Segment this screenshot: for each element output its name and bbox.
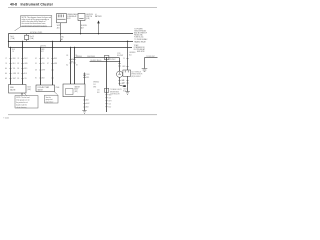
- svg-text:(C/B): (C/B): [86, 18, 90, 20]
- svg-text:NOTE: The fuel and: NOTE: The fuel and: [16, 97, 29, 99]
- svg-text:TO POWER: TO POWER: [134, 29, 143, 31]
- svg-text:RED: RED: [54, 58, 57, 60]
- ground G1: [82, 111, 86, 114]
- svg-text:No.13: No.13: [30, 36, 34, 38]
- svg-text:YEL: YEL: [61, 36, 64, 38]
- wire from fuse box B to bus: [80, 21, 82, 34]
- svg-text:WHT: WHT: [42, 70, 45, 72]
- svg-text:BLU/WHT: BLU/WHT: [117, 55, 123, 57]
- svg-text:RED: RED: [24, 68, 27, 70]
- branch wire W5: [90, 61, 120, 63]
- svg-text:(INT): (INT): [74, 91, 78, 93]
- wire V2b: [52, 41, 54, 85]
- svg-text:BOX: BOX: [67, 18, 70, 20]
- svg-text:D4: D4: [47, 58, 49, 60]
- svg-text:C16: C16: [97, 89, 100, 91]
- svg-text:D2: D2: [35, 58, 37, 60]
- svg-text:GRN: GRN: [71, 59, 74, 61]
- inline connector on wire: [83, 74, 86, 78]
- svg-text:B12: B12: [41, 51, 44, 53]
- gauge assembly box G3: [63, 84, 85, 97]
- arrow leader from note box N2: [21, 93, 23, 95]
- svg-text:Instrument Cluster: Instrument Cluster: [21, 2, 54, 6]
- battery feed arrow B+: [95, 14, 102, 34]
- svg-text:GRN: GRN: [24, 63, 27, 65]
- gauge box G1: [9, 85, 32, 94]
- ground G404: [142, 69, 148, 72]
- wire label between buses: [61, 36, 64, 40]
- svg-text:IGNITION: IGNITION: [86, 14, 93, 16]
- svg-text:BRIGHTNESS: BRIGHTNESS: [110, 91, 119, 93]
- connector ticks and labels on V2a/V2b: [39, 59, 53, 79]
- branch W5 end label: [109, 59, 115, 61]
- svg-text:BLU: BLU: [108, 106, 111, 108]
- svg-text:BLU: BLU: [24, 73, 27, 75]
- svg-text:COMPRESSOR: COMPRESSOR: [134, 47, 146, 49]
- svg-text:GRN/BLK: GRN/BLK: [76, 56, 82, 58]
- svg-text:C18: C18: [108, 97, 111, 99]
- inline connector ticks: [118, 64, 121, 67]
- wire V3a: [70, 47, 72, 84]
- label for fuse box A: [67, 13, 77, 20]
- wire into G3: [84, 73, 86, 85]
- connector box label: [131, 71, 142, 78]
- svg-text:BLK: BLK: [122, 80, 125, 82]
- svg-text:FUEL: FUEL: [10, 87, 14, 89]
- wire V1a (gauge feed 1): [10, 47, 12, 84]
- svg-text:D5: D5: [35, 63, 37, 65]
- connector ticks and labels on V1a/V1b: [9, 59, 23, 79]
- svg-text:WHT: WHT: [57, 25, 60, 27]
- page header title: [10, 2, 54, 6]
- svg-text:WHT: WHT: [24, 58, 27, 60]
- svg-text:RED: RED: [86, 77, 89, 79]
- connector box C417: [123, 70, 131, 76]
- svg-text:BLK: BLK: [123, 91, 126, 93]
- svg-text:SWITCH: SWITCH: [86, 16, 92, 18]
- svg-text:(8P) BLU/WHT: (8P) BLU/WHT: [131, 76, 140, 78]
- svg-text:PPL/WHT: PPL/WHT: [109, 59, 115, 61]
- wire V5 to connector box: [127, 41, 129, 70]
- svg-text:RED: RED: [108, 94, 111, 96]
- label for fuse box B: [86, 14, 93, 20]
- bus W2 right label: [134, 38, 148, 43]
- branch W4 label: [76, 56, 95, 58]
- bus W3 right label: [134, 44, 146, 53]
- fuse box B (ignition switch): [78, 14, 85, 21]
- note box N3: [45, 95, 59, 103]
- wire below speedometer: [119, 77, 121, 85]
- svg-text:RED: RED: [71, 62, 74, 64]
- wire V3b: [74, 47, 76, 84]
- junction dot: [80, 33, 81, 34]
- svg-text:C5: C5: [123, 58, 125, 60]
- wire V4: [106, 58, 108, 112]
- ground terminal blob: [120, 84, 124, 87]
- svg-text:BLK: BLK: [42, 78, 45, 80]
- svg-text:BLU: BLU: [12, 49, 15, 51]
- wire below connector box: [127, 76, 129, 91]
- svg-text:D8: D8: [35, 70, 37, 72]
- connector ticks on V3a/V3b: [69, 60, 75, 64]
- wire V1b (gauge feed 2): [22, 41, 24, 84]
- svg-text:YEL: YEL: [13, 68, 16, 70]
- svg-text:YEL: YEL: [42, 63, 45, 65]
- wire color label: [81, 25, 87, 30]
- svg-text:BLU: BLU: [42, 58, 45, 60]
- svg-text:FUSE No.30): FUSE No.30): [134, 37, 143, 39]
- labels on V3a/V3b: [66, 55, 78, 66]
- svg-text:BLK/YEL: BLK/YEL: [81, 25, 87, 27]
- ground G403: [125, 92, 130, 95]
- svg-text:C7: C7: [5, 58, 7, 60]
- svg-text:GRN: GRN: [54, 63, 57, 65]
- svg-text:ORN/BLU: ORN/BLU: [93, 81, 99, 83]
- svg-text:B6: B6: [17, 68, 19, 70]
- inline connector box on branch W4: [104, 56, 109, 60]
- svg-text:B8: B8: [17, 73, 19, 75]
- bus wire W1 (HOT AT ALL TIMES): [9, 34, 134, 48]
- svg-text:No.9: No.9: [10, 36, 13, 38]
- speedometer gauge M1: [117, 71, 123, 77]
- svg-text:BLK: BLK: [86, 107, 89, 109]
- svg-text:GRN: GRN: [41, 49, 44, 51]
- svg-text:C9: C9: [5, 63, 7, 65]
- bus W1 label: [30, 31, 42, 34]
- bus wire W3 (HOT IN ON/START): [9, 46, 133, 48]
- branch wire W4 to speedometer: [75, 57, 120, 59]
- fuse F1 on left rails: [10, 34, 34, 42]
- svg-text:CONTROLLER: CONTROLLER: [110, 94, 120, 96]
- gauge box G2: [36, 85, 59, 92]
- note box N1: [15, 16, 52, 31]
- svg-text:C410: C410: [86, 74, 90, 76]
- svg-text:BLU: BLU: [13, 63, 16, 65]
- wire V2a labels: [41, 49, 44, 53]
- svg-text:C506: C506: [56, 87, 60, 89]
- svg-text:GRN/RED: GRN/RED: [129, 52, 135, 54]
- junction dot: [60, 33, 61, 34]
- fuse box A (under-dash fuse/relay box): [57, 14, 67, 23]
- bus W3 label: [41, 45, 47, 47]
- svg-text:B2: B2: [17, 63, 19, 65]
- svg-text:page 40-12: page 40-12: [46, 102, 54, 104]
- header rule: [8, 6, 157, 9]
- note box N2: [15, 92, 38, 108]
- leader from gauge box G2: [54, 92, 58, 95]
- leader from gauge box G1: [24, 93, 28, 97]
- footer rule: [8, 114, 157, 117]
- svg-text:C505: C505: [27, 87, 31, 89]
- connector box on V4: [104, 88, 108, 92]
- wire from fuse box A to bus: [60, 23, 62, 34]
- svg-text:D7: D7: [47, 63, 49, 65]
- svg-text:BLK/YEL: BLK/YEL: [41, 45, 47, 47]
- bus W1 right label: [134, 29, 147, 39]
- svg-text:C728: C728: [117, 53, 121, 55]
- svg-text:C14: C14: [93, 84, 96, 86]
- wire color label: [57, 25, 60, 30]
- svg-text:GRN: GRN: [122, 66, 125, 68]
- svg-text:B3: B3: [66, 55, 68, 57]
- V5 labels: [129, 52, 135, 56]
- svg-text:G401: G401: [123, 88, 127, 90]
- right edge stub wire: [145, 58, 158, 69]
- svg-text:TO SRS UNIT: TO SRS UNIT: [146, 56, 155, 58]
- connector tick on V5: [126, 59, 128, 67]
- leader line from note box N1: [15, 27, 21, 31]
- svg-text:C20: C20: [108, 103, 111, 105]
- svg-text:G402: G402: [86, 103, 90, 105]
- svg-text:C6: C6: [12, 51, 14, 53]
- svg-text:SPEED SENSOR: SPEED SENSOR: [131, 74, 142, 76]
- svg-text:WHT: WHT: [108, 100, 111, 102]
- wire below G3 to ground: [84, 97, 86, 111]
- bus wire W2 (HOT IN ON): [9, 40, 134, 42]
- svg-text:E1: E1: [35, 78, 37, 80]
- branch W5 label: [90, 59, 102, 62]
- svg-text:RED: RED: [13, 58, 16, 60]
- svg-text:ORN: ORN: [93, 87, 96, 89]
- svg-text:VEH SPEED: VEH SPEED: [87, 56, 95, 58]
- svg-text:C417 VEHICLE: C417 VEHICLE: [131, 71, 141, 73]
- svg-text:© 14-02: © 14-02: [3, 116, 9, 119]
- svg-text:WHT: WHT: [13, 78, 16, 80]
- svg-text:YEL: YEL: [24, 78, 27, 80]
- connector ticks on V4 lower: [105, 95, 107, 107]
- wire to speedometer: [119, 58, 121, 71]
- connector label: [117, 53, 123, 57]
- footer page number: [3, 116, 9, 119]
- svg-text:C8: C8: [17, 58, 19, 60]
- wire continuation from fuse box A between buses: [60, 34, 62, 42]
- svg-text:B9: B9: [17, 78, 19, 80]
- wire V2a: [40, 47, 42, 85]
- labels right of V4: [110, 88, 122, 95]
- svg-text:40-8: 40-8: [10, 2, 17, 6]
- svg-text:(10P): (10P): [27, 89, 31, 91]
- svg-text:GRN: GRN: [13, 73, 16, 75]
- wire V1a labels: [12, 49, 15, 53]
- labels left of V4: [93, 81, 100, 94]
- svg-text:BLK: BLK: [97, 92, 100, 94]
- svg-text:BLK: BLK: [86, 100, 89, 102]
